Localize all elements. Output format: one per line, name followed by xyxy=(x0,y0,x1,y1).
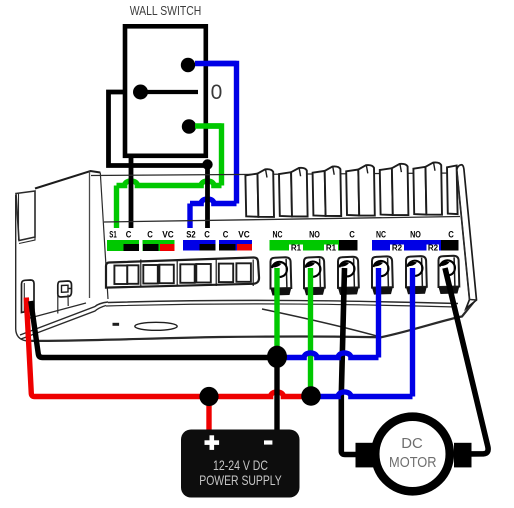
svg-text:C: C xyxy=(448,230,454,240)
svg-text:NC: NC xyxy=(273,230,283,240)
wire green switch-to-S1 xyxy=(117,126,222,228)
device front dash detail xyxy=(113,323,120,326)
power supply plus mark xyxy=(205,435,220,450)
svg-text:NO: NO xyxy=(309,230,320,240)
terminal strip R2 blue xyxy=(372,240,459,251)
svg-text:12-24 V DC: 12-24 V DC xyxy=(213,458,268,473)
svg-text:VC: VC xyxy=(238,230,250,240)
device left edge xyxy=(16,195,26,341)
device G clip xyxy=(58,281,72,314)
motor M1 label xyxy=(389,436,437,471)
switch terminal top-right xyxy=(181,58,195,72)
wire green NO-R1 xyxy=(308,268,313,396)
switch terminal common xyxy=(133,85,148,100)
svg-text:NC: NC xyxy=(376,230,386,240)
wire green NC-R1 xyxy=(274,268,279,357)
device left panel bottom xyxy=(28,303,86,319)
device top edge xyxy=(91,173,458,176)
wire black C-R1 to motor xyxy=(341,268,356,455)
wire black switch-common-to-C xyxy=(109,92,208,228)
motor M1 body xyxy=(375,417,450,492)
svg-text:DC: DC xyxy=(401,436,423,452)
terminal seats xyxy=(271,287,460,296)
power supply minus mark xyxy=(264,440,272,444)
terminal strip C-VC 1 xyxy=(143,240,175,251)
wire blue switch-to-S2 xyxy=(188,64,237,229)
wire red PSU plus xyxy=(206,397,211,432)
wire blue NO bus xyxy=(311,268,413,397)
S-terminals block xyxy=(106,257,259,287)
device fins xyxy=(245,162,457,216)
device left flap xyxy=(16,191,35,244)
device top-left slope xyxy=(35,171,100,189)
svg-text:0: 0 xyxy=(211,81,223,104)
device inner left edge xyxy=(100,173,108,300)
svg-text:R1: R1 xyxy=(291,244,302,253)
terminal strip S1 green xyxy=(107,240,139,251)
wire black C-R2 to motor xyxy=(445,268,488,454)
svg-text:R2: R2 xyxy=(392,244,403,253)
node NC junction xyxy=(267,346,287,368)
svg-text:R1: R1 xyxy=(326,244,337,253)
device corner chamfer xyxy=(20,302,108,339)
svg-text:S1: S1 xyxy=(109,230,116,240)
device label band top line xyxy=(104,217,460,223)
svg-text:C: C xyxy=(223,230,229,240)
wire blue stub xyxy=(195,61,237,66)
svg-text:VC: VC xyxy=(162,230,174,240)
svg-text:WALL SWITCH: WALL SWITCH xyxy=(130,4,202,18)
node junction switch common xyxy=(202,159,212,169)
svg-text:C: C xyxy=(126,230,132,240)
terminal strip R1 green xyxy=(270,240,358,251)
wire blue NC bus xyxy=(277,268,379,358)
svg-text:R2: R2 xyxy=(428,244,439,253)
motor M1 left terminal xyxy=(356,443,375,468)
device front oval detail xyxy=(135,322,177,330)
switch terminal bottom-right xyxy=(182,119,196,133)
relay R1 labels xyxy=(291,244,337,253)
device base edge xyxy=(26,301,475,341)
wall switch label xyxy=(130,4,202,18)
wire black PSU minus xyxy=(274,357,279,431)
device right end cap xyxy=(457,165,477,309)
power supply text xyxy=(199,458,282,488)
switch SW1 body xyxy=(125,26,206,156)
terminal strip C-VC 2 xyxy=(219,240,252,251)
motor M1 right terminal xyxy=(454,443,472,468)
svg-text:POWER SUPPLY: POWER SUPPLY xyxy=(199,473,282,488)
device front-left edge xyxy=(89,172,91,299)
node NO junction xyxy=(301,386,321,406)
device mount tab xyxy=(22,280,35,313)
wire red plus bus xyxy=(209,392,311,397)
wire black switch-to-C1 xyxy=(129,153,134,228)
wire black device lead xyxy=(31,301,277,358)
power supply PS1 body xyxy=(181,430,300,498)
relay R2 labels xyxy=(392,244,439,253)
wire green stub xyxy=(195,123,222,128)
terminal labels row xyxy=(109,230,454,240)
svg-text:C: C xyxy=(349,230,355,240)
node PSU+ junction xyxy=(199,387,218,406)
switch position 0 label xyxy=(211,81,223,104)
svg-text:MOTOR: MOTOR xyxy=(389,455,437,471)
svg-text:NO: NO xyxy=(410,230,421,240)
svg-text:C: C xyxy=(147,230,153,240)
wire red device lead xyxy=(26,298,209,397)
svg-text:S2: S2 xyxy=(186,230,195,240)
switch lever xyxy=(141,90,199,94)
device under-terminal lines xyxy=(106,300,458,307)
terminal strip S2 blue xyxy=(183,240,216,251)
R-terminal screws xyxy=(271,256,460,289)
svg-text:C: C xyxy=(204,230,210,240)
